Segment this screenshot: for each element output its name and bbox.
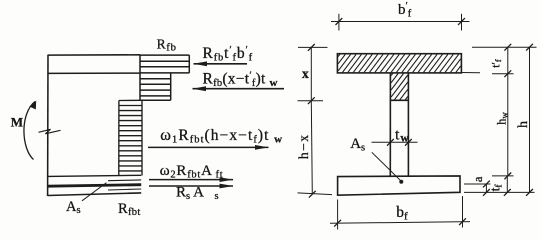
web outline	[389, 73, 391, 176]
dimensioning	[298, 14, 537, 230]
svg-text:bf: bf	[396, 204, 408, 223]
svg-text:Rfbt: Rfbt	[118, 201, 141, 218]
dim h (far right)	[529, 47, 531, 192]
top flange hatch	[338, 54, 461, 72]
compression force arrow 1 (left-pointing)	[194, 63, 248, 65]
svg-text:As: As	[66, 199, 81, 216]
svg-text:As: As	[350, 136, 365, 154]
web compression hatch	[391, 74, 408, 100]
left stress-distribution figure	[24, 55, 284, 201]
svg-text:t w: t w	[395, 126, 409, 144]
bottom strip hatch line B2 (right part)	[108, 189, 141, 190]
svg-text:a: a	[471, 176, 485, 182]
rebar dot	[399, 180, 403, 184]
dim h-x (left)	[311, 101, 312, 195]
top flange top line	[48, 54, 140, 56]
bottom strip bottom line	[48, 193, 142, 196]
svg-text:Rfb(x−t′f)t w: Rfb(x−t′f)t w	[203, 71, 278, 90]
svg-text:ω2RfbtA ft: ω2RfbtA ft	[160, 163, 224, 181]
svg-text:hw: hw	[495, 112, 510, 125]
top flange bottom line	[48, 72, 140, 74]
dim tf line (right)	[506, 176, 508, 192]
tension arrow Rs (right-pointing)	[149, 185, 233, 187]
svg-text:t′f: t′f	[490, 59, 503, 68]
bottom strip hatch line B (right part)	[108, 179, 141, 182]
bottom flange outline	[338, 176, 460, 195]
top flange outline	[337, 54, 461, 73]
svg-text:Rfb: Rfb	[157, 37, 177, 54]
svg-text:x: x	[302, 66, 309, 81]
compression block 1 (flange stress, hatched)	[140, 55, 189, 73]
neutral axis line in web	[390, 99, 408, 101]
tension arrow omega1 (right-pointing)	[148, 146, 269, 148]
dim a (right)	[485, 184, 487, 192]
dim x (left)	[310, 47, 312, 100]
steel layer thick line	[48, 185, 142, 187]
leader line from As label	[82, 183, 107, 201]
svg-text:ω1Rfbt(h−x−tf)t w: ω1Rfbt(h−x−tf)t w	[160, 126, 283, 146]
bottom tension strip: top line	[48, 175, 142, 176]
moment arc M	[24, 102, 35, 160]
tension column (web tension stress, hatched)	[119, 100, 142, 176]
compression block 2 (web compression stress, hatched)	[140, 73, 171, 100]
svg-text:Rfbt′fb′f: Rfbt′fb′f	[203, 45, 253, 64]
svg-text:h: h	[516, 121, 531, 128]
dim b'f top	[331, 21, 470, 23]
leader from As to rebar	[372, 152, 401, 180]
tension arrow omega2 (right-pointing)	[149, 179, 233, 181]
break symbol (zigzag) on left edge	[39, 129, 61, 134]
svg-text:Rs A s: Rs A s	[176, 185, 219, 203]
svg-text:tf: tf	[488, 184, 505, 192]
svg-text:M: M	[11, 114, 23, 129]
dim tw (web)	[372, 141, 418, 143]
right cross-section figure	[337, 54, 461, 196]
dim bf bottom	[337, 200, 339, 230]
dim t'f / hw shared line (right)	[472, 46, 537, 48]
compression force arrow 2 (left-pointing)	[193, 88, 285, 90]
bottom long extension line	[464, 191, 535, 193]
beam left edge (vertical reference line)	[47, 55, 49, 196]
svg-text:h−x: h−x	[296, 133, 311, 159]
svg-text:b′f: b′f	[398, 1, 412, 20]
